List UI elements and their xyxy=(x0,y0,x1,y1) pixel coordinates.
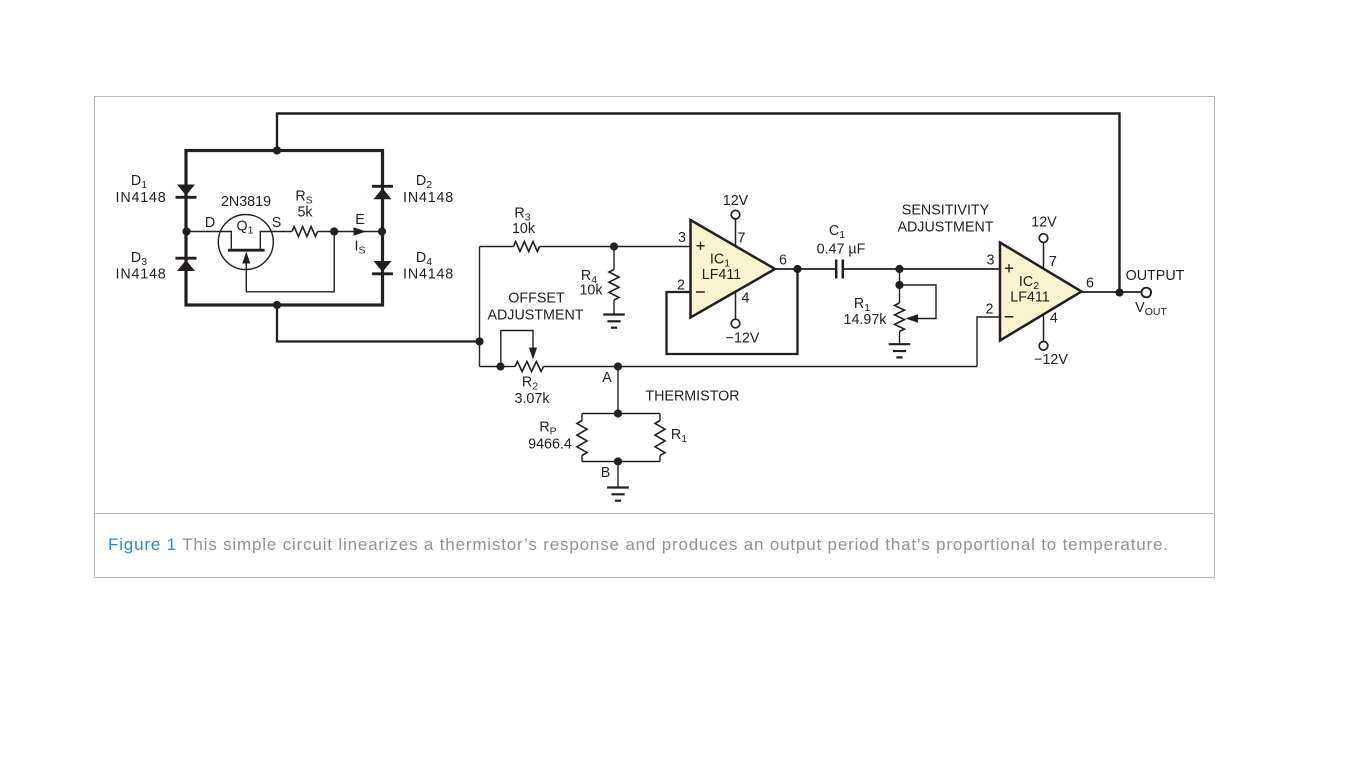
wire: C1 to IC2 pin 3 xyxy=(900,268,1001,270)
wire: bridge bottom to offset-adjust rail xyxy=(277,305,480,342)
ground (R1 pot) xyxy=(889,343,911,345)
node: thermistor top junction xyxy=(614,409,622,417)
svg-text:3.07k: 3.07k xyxy=(515,391,551,407)
gate arrow of Q1 xyxy=(242,252,250,264)
diode D2 xyxy=(372,185,393,188)
pin 7 stub and supply circle (IC1 12V) xyxy=(735,219,737,246)
svg-text:THERMISTOR: THERMISTOR xyxy=(645,388,739,404)
svg-text:IN4148: IN4148 xyxy=(116,190,167,206)
potentiometer R1 14.97k (sensitivity) xyxy=(899,269,901,303)
node: rail junction from bridge xyxy=(475,337,483,345)
svg-text:7: 7 xyxy=(738,231,746,247)
svg-text:4: 4 xyxy=(742,291,750,307)
wire: IC2 pin 2 route to node A row xyxy=(977,317,1000,367)
plus sign (IC2) xyxy=(1005,267,1013,269)
node B xyxy=(614,457,622,465)
svg-text:4: 4 xyxy=(1050,310,1058,326)
node: bridge bottom junction xyxy=(273,301,281,309)
wire: R3 to IC1 pin 3 xyxy=(540,246,691,248)
svg-text:IN4148: IN4148 xyxy=(403,190,454,206)
svg-text:Figure 1 This simple circuit l: Figure 1 This simple circuit linearizes … xyxy=(108,535,1169,554)
diode D4 xyxy=(374,261,392,272)
node: output junction xyxy=(1115,288,1123,296)
node: C1 output junction xyxy=(895,265,903,273)
wire: thermistor top rail xyxy=(582,413,660,415)
current arrow IS xyxy=(354,227,367,235)
caption separator line xyxy=(95,513,1215,515)
svg-text:S: S xyxy=(272,215,282,231)
svg-text:−12V: −12V xyxy=(1034,352,1068,368)
svg-text:14.97k: 14.97k xyxy=(844,312,888,328)
svg-text:OFFSET: OFFSET xyxy=(508,290,565,306)
resistor R4 xyxy=(613,247,615,270)
wiper loop of R2 xyxy=(501,331,533,367)
svg-text:ADJUSTMENT: ADJUSTMENT xyxy=(487,308,583,324)
wire: IC1 output pin 6 xyxy=(775,268,798,270)
svg-text:10k: 10k xyxy=(579,283,603,299)
potentiometer R2 3.07k (offset) xyxy=(515,362,544,372)
figure frame box xyxy=(95,97,1215,578)
svg-text:E: E xyxy=(355,212,365,228)
svg-text:2N3819: 2N3819 xyxy=(221,194,271,210)
svg-text:6: 6 xyxy=(779,253,787,269)
node: R3/R4 junction xyxy=(610,242,618,250)
transistor Q1 2N3819 (JFET) xyxy=(218,215,273,270)
node: R2 left terminal xyxy=(496,362,504,370)
svg-text:SENSITIVITY: SENSITIVITY xyxy=(902,202,990,218)
svg-text:5k: 5k xyxy=(297,205,313,221)
diode D1 xyxy=(177,185,195,196)
node: bridge top junction xyxy=(273,146,281,154)
wire: node B to ground xyxy=(617,462,619,488)
wire: node A to thermistor top xyxy=(617,367,619,414)
wire: IC1 feedback loop xyxy=(667,269,798,354)
svg-text:6: 6 xyxy=(1086,276,1094,292)
svg-text:0.47 µF: 0.47 µF xyxy=(817,242,866,258)
wire: RS to bridge right edge xyxy=(318,231,383,233)
minus sign (IC1) xyxy=(696,291,705,293)
svg-text:2: 2 xyxy=(986,302,994,318)
svg-text:IN4148: IN4148 xyxy=(116,267,167,283)
svg-text:−12V: −12V xyxy=(726,330,760,346)
node: RS/gate junction xyxy=(330,227,338,235)
diode D3 xyxy=(176,257,197,260)
node A xyxy=(614,362,622,370)
svg-text:LF411: LF411 xyxy=(1010,290,1050,306)
wire: drain lead from bridge to Q1 xyxy=(186,232,231,249)
wire: node A row xyxy=(501,366,516,368)
svg-text:3: 3 xyxy=(678,230,686,246)
wire: gate return to RS output node xyxy=(246,232,334,292)
svg-text:LF411: LF411 xyxy=(702,267,742,283)
pin 4 stub and supply circle (IC1 -12V) xyxy=(735,292,737,320)
resistor R3 xyxy=(480,246,514,248)
pin 7 stub and supply circle (IC2 12V) xyxy=(1043,242,1045,268)
wire: top feedback from bridge top to output node xyxy=(277,114,1120,293)
svg-text:D: D xyxy=(205,215,215,231)
ground (R4) xyxy=(603,313,625,315)
svg-text:12V: 12V xyxy=(723,193,749,209)
svg-text:OUTPUT: OUTPUT xyxy=(1126,268,1185,284)
svg-text:10k: 10k xyxy=(512,221,536,237)
capacitor C1 xyxy=(798,268,837,270)
diode bridge outline xyxy=(186,151,383,306)
wire: thermistor bottom rail xyxy=(582,461,660,463)
svg-text:7: 7 xyxy=(1049,254,1057,270)
wiper loop of R1 pot xyxy=(900,285,937,319)
resistor RS xyxy=(292,227,318,237)
svg-text:3: 3 xyxy=(987,253,995,269)
minus sign (IC2) xyxy=(1005,316,1014,318)
wire: left rail vertical xyxy=(479,247,481,367)
output terminal circle xyxy=(1142,288,1152,298)
op-amp IC2 LF411 xyxy=(1000,243,1082,341)
node: IC1 output junction xyxy=(793,265,801,273)
plus sign (IC1) xyxy=(696,245,704,247)
wire: source lead xyxy=(260,232,292,249)
resistor RP 9466.4 xyxy=(581,414,583,421)
svg-text:9466.4: 9466.4 xyxy=(528,437,572,453)
wire: IC2 output pin 6 to terminal xyxy=(1082,291,1142,293)
ground (node B) xyxy=(607,486,629,488)
op-amp IC1 LF411 xyxy=(691,220,776,318)
svg-text:12V: 12V xyxy=(1031,214,1057,230)
svg-text:A: A xyxy=(602,370,612,386)
node: E node on bridge right edge xyxy=(378,227,386,235)
svg-text:IN4148: IN4148 xyxy=(403,267,454,283)
svg-text:ADJUSTMENT: ADJUSTMENT xyxy=(897,220,993,236)
svg-text:B: B xyxy=(601,465,611,481)
pin 4 stub and supply circle (IC2 -12V) xyxy=(1043,314,1045,341)
resistor R1 (thermistor) xyxy=(659,414,661,421)
node: drain node on bridge left edge xyxy=(182,227,190,235)
